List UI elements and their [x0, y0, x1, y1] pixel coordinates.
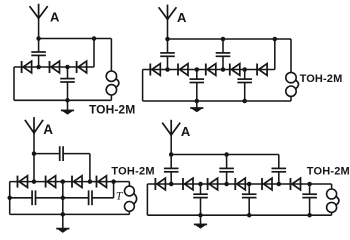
node bottom tee 2 (c2) — [242, 99, 247, 104]
wire diode row (c2) — [143, 69, 275, 71]
svg-text:ТОН-2М: ТОН-2М — [307, 165, 350, 177]
wire bottom rail (c1) — [14, 99, 111, 101]
svg-text:А: А — [43, 122, 53, 137]
wire C1 to row (c2) — [167, 56, 169, 69]
diode VD3 (c3) — [72, 176, 82, 188]
wire C3 to row (c4) — [278, 172, 280, 184]
svg-text:Т: Т — [116, 191, 124, 203]
wire top rail (c1) — [39, 38, 112, 40]
diode VD5 (c2) — [257, 64, 267, 76]
node bottom tee 1 (c4) — [198, 213, 203, 218]
node row F (c4) — [307, 182, 312, 187]
wire phones top lead (c1) — [110, 39, 112, 72]
diode VD6 (c4) — [291, 178, 301, 190]
capacitor C1 series (c4) — [164, 168, 179, 171]
wire antenna drop (c2) — [167, 19, 169, 53]
node row B (c2) — [195, 67, 200, 72]
wire mid rail seg1 (c3) — [10, 197, 32, 199]
capacitor C1 bridge (c3) — [60, 146, 63, 161]
capacitor C2 shunt (c1) — [60, 79, 75, 82]
node mid center (c3) — [61, 196, 66, 201]
wire C3 to bottom rail (c2) — [196, 83, 198, 102]
wire C5cap to bottom (c4) — [248, 198, 250, 216]
wire antenna drop (c4) — [170, 135, 172, 168]
wire top branch right (c3) — [63, 153, 90, 155]
wire diode row (c1) — [14, 66, 94, 68]
diode VD2 (c2) — [178, 64, 188, 76]
node row E (c4) — [277, 182, 282, 187]
svg-text:ТОН-2М: ТОН-2М — [89, 103, 135, 117]
ground (c3) — [56, 229, 69, 233]
wire bottom rail (c3) — [10, 213, 130, 215]
wire C2 to bottom rail (c1) — [67, 82, 69, 100]
wire mid rail seg3 (c3) — [92, 197, 114, 199]
capacitor C1 series (c2) — [160, 53, 175, 56]
svg-text:А: А — [181, 124, 191, 139]
diode VD5 (c4) — [262, 178, 272, 190]
capacitor C5 shunt (c4) — [242, 194, 257, 197]
diode VD1 (c2) — [150, 64, 160, 76]
node bottom tee 1 (c2) — [195, 99, 200, 104]
node antenna junction (c2) — [165, 37, 170, 42]
diode VD4 (c3) — [97, 176, 107, 188]
diode VD1 (c1) — [22, 61, 32, 73]
wire antenna drop (c3) — [33, 133, 35, 182]
capacitor C3 mid (c3) — [89, 190, 92, 205]
wire C6cap to bottom (c4) — [309, 198, 311, 216]
ground (c1) — [61, 110, 74, 114]
svg-text:А: А — [50, 9, 60, 24]
wire node B to C3 (c2) — [196, 70, 198, 80]
antenna A (circuit 4) — [162, 120, 180, 137]
wire phones bottom lead (c3) — [128, 211, 130, 214]
diode VD4 (c2) — [230, 64, 240, 76]
wire diode row (c3) — [10, 181, 130, 183]
diode VD1 (c4) — [155, 178, 165, 190]
svg-text:ТОН-2М: ТОН-2М — [111, 165, 154, 177]
node bottom tee 2 (c4) — [247, 213, 252, 218]
node top rail tee 1 (c2) — [221, 37, 226, 42]
node row A (c1) — [36, 65, 41, 70]
wire phones top lead (c4) — [331, 184, 333, 189]
node row D (c3) — [111, 179, 116, 184]
wire phones top lead (c3) — [128, 182, 130, 187]
diode VD3 (c1) — [77, 61, 87, 73]
wire ground column (c3) — [62, 182, 64, 229]
wire C2 to row (c4) — [226, 172, 228, 184]
node mid left (c3) — [7, 196, 12, 201]
node row C (c4) — [224, 182, 229, 187]
diode VD2 (c4) — [183, 178, 193, 190]
capacitor C4 shunt (c4) — [193, 194, 208, 197]
node top rail tee 2 (c2) — [273, 37, 278, 42]
wire C1 to diode row (c1) — [38, 55, 40, 67]
wire node D to C4 (c2) — [244, 70, 246, 80]
headphones BF1 (c4) — [327, 189, 339, 212]
wire C1 to row (c4) — [170, 172, 172, 184]
node bottom tee (c1) — [65, 98, 70, 103]
wire node B to C4cap (c4) — [200, 184, 202, 194]
diode VD3 (c4) — [208, 178, 218, 190]
antenna A (circuit 3) — [25, 117, 43, 134]
node row C (c2) — [221, 67, 226, 72]
node row A (c4) — [169, 182, 174, 187]
wire node F to C6cap (c4) — [309, 184, 311, 194]
wire C2 to row (c2) — [222, 56, 224, 69]
wire mid rail seg2 (c3) — [36, 197, 89, 199]
node bottom tee 3 (c4) — [307, 213, 312, 218]
diode VD2 (c3) — [46, 176, 56, 188]
capacitor C2 mid (c3) — [32, 190, 35, 205]
wire C2 from rail (c2) — [222, 39, 224, 53]
wire bottom rail (c2) — [143, 100, 291, 102]
wire C2 from rail (c4) — [226, 155, 228, 169]
wire ground stem (c4) — [200, 215, 202, 224]
wire row riser (c2) — [274, 39, 276, 70]
wire mid riser to row (c3) — [113, 182, 115, 198]
node row D (c2) — [242, 67, 247, 72]
node row A (c2) — [165, 67, 170, 72]
svg-text:ТОН-2М: ТОН-2М — [300, 73, 343, 85]
headphones BF1 (c3) — [124, 186, 136, 211]
wire bottom rail (c4) — [147, 214, 331, 216]
wire diode row (c4) — [147, 183, 331, 185]
svg-text:А: А — [177, 10, 187, 25]
wire phones top lead (c2) — [290, 39, 292, 72]
antenna A (circuit 1) — [30, 4, 48, 20]
wire left rail (c2) — [142, 70, 144, 102]
ground (c2) — [190, 108, 203, 112]
capacitor C2 series (c2) — [216, 53, 231, 56]
node antenna junction (c4) — [169, 152, 174, 157]
wire phones bottom lead (c4) — [331, 212, 333, 215]
node row B (c3) — [61, 179, 66, 184]
wire phones bottom lead (c2) — [290, 96, 292, 101]
diode VD2 (c1) — [50, 61, 60, 73]
node row A (c3) — [32, 179, 37, 184]
capacitor C3 shunt (c2) — [190, 79, 205, 82]
wire left rail (c1) — [13, 67, 15, 100]
wire left rail (c3) — [9, 182, 11, 215]
wire top branch left (c3) — [34, 153, 60, 155]
capacitor C2 series (c4) — [219, 168, 234, 171]
wire top rail (c2) — [168, 38, 292, 40]
headphones BF1 (c2) — [286, 72, 299, 96]
wire C4cap to bottom (c4) — [200, 198, 202, 216]
headphones BF1 (c1) — [106, 71, 119, 95]
wire left rail (c4) — [146, 184, 148, 215]
wire node B to C2 (c1) — [67, 67, 69, 79]
wire ground stem (c2) — [196, 101, 198, 108]
wire top branch drop (c3) — [89, 154, 91, 182]
node bottom tee (c3) — [61, 212, 66, 217]
capacitor C3 series (c4) — [272, 168, 287, 171]
node row B (c4) — [198, 182, 203, 187]
capacitor C1 series (c1) — [31, 52, 46, 55]
diode VD4 (c4) — [235, 178, 245, 190]
node top rail tee (c4) — [224, 152, 229, 157]
wire row riser (c1) — [93, 39, 95, 68]
wire ground stem (c1) — [67, 100, 69, 110]
diode VD1 (c3) — [18, 176, 28, 188]
wire antenna drop (c1) — [38, 18, 40, 52]
capacitor C6 shunt (c4) — [302, 194, 317, 197]
node row D (c4) — [247, 182, 252, 187]
capacitor C4 shunt (c2) — [237, 79, 252, 82]
ground (c4) — [194, 224, 207, 228]
wire C4 to bottom rail (c2) — [244, 83, 246, 102]
antenna A (circuit 2) — [159, 5, 177, 21]
node top rail tee (c1) — [92, 36, 97, 41]
node row B (c1) — [65, 65, 70, 70]
wire node D to C5cap (c4) — [248, 184, 250, 194]
diode VD3 (c2) — [206, 64, 216, 76]
wire top rail (c4) — [171, 154, 279, 156]
wire phones bottom lead (c1) — [110, 95, 112, 101]
wire C3 from rail (c4) — [278, 155, 280, 169]
node row C (c3) — [88, 179, 93, 184]
node antenna junction (c1) — [36, 36, 41, 41]
node antenna junction (c3) — [32, 151, 37, 156]
